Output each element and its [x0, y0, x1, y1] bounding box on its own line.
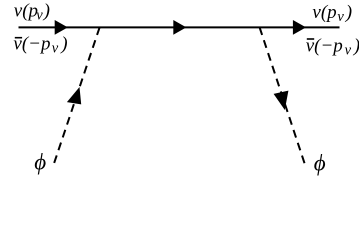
- arrow on fermion line (left): [55, 20, 68, 35]
- arrow on left scalar line (pointing up toward vertex): [67, 87, 81, 104]
- arrow on fermion line (middle): [173, 20, 186, 35]
- arrow on right scalar line (pointing down away from vertex): [274, 91, 289, 110]
- overbar of nubar bottom-right: [307, 38, 314, 40]
- svg-text:ϕ: ϕ: [34, 150, 46, 175]
- overbar of nubar bottom-left: [15, 37, 22, 39]
- fermion line (horizontal solid nu line): [19, 26, 340, 28]
- arrow on fermion line (right): [293, 20, 306, 35]
- svg-text:ϕ: ϕ: [314, 150, 326, 175]
- scalar phi line (right, dashed): [260, 27, 306, 167]
- svg-text:ν(pν): ν(pν): [312, 2, 352, 25]
- scalar phi line (left, dashed): [53, 27, 100, 166]
- svg-text:ν(pν): ν(pν): [14, 1, 50, 24]
